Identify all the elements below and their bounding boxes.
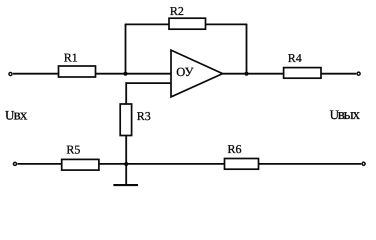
input terminal (upper left, Uвх) [9, 72, 12, 75]
svg-text:R6: R6 [227, 142, 241, 156]
resistor R5 [62, 142, 99, 170]
svg-text:R5: R5 [66, 142, 80, 156]
wire: R6 to lower output terminal [259, 163, 362, 165]
ground [113, 164, 138, 185]
node C junction dot [124, 162, 128, 166]
wire: input terminal to R1 [13, 73, 59, 75]
svg-text:Uвых: Uвых [330, 107, 361, 123]
svg-text:R4: R4 [288, 51, 302, 65]
wire: vertical from lower input corner down to R3 [125, 82, 127, 104]
resistor R6 [225, 142, 259, 169]
op-amp U1 (ОУ) [171, 50, 223, 97]
output terminal (upper right, Uвых) [357, 72, 360, 75]
svg-text:R2: R2 [170, 4, 184, 18]
wire: feedback right vertical down to output node B [246, 24, 248, 74]
resistor R1 [59, 51, 96, 77]
resistor R3 [120, 104, 151, 136]
wire: R4 to output terminal [321, 73, 356, 75]
resistor R2 [169, 4, 206, 29]
svg-text:ОУ: ОУ [176, 65, 193, 79]
wire: top feedback horizontal left to R2 [125, 23, 169, 25]
wire: R1 to op-amp noninverting input (through node A) [96, 73, 172, 75]
input terminal (lower left) [13, 162, 16, 165]
node A junction dot [123, 72, 127, 76]
output terminal (lower right) [362, 162, 365, 165]
resistor R4 [284, 51, 321, 78]
wire: op-amp output to R4 (through node B) [223, 73, 284, 75]
svg-text:Uвх: Uвх [5, 108, 28, 124]
wire: R3 bottom down to node C [125, 136, 127, 165]
node B junction dot [244, 72, 248, 76]
wire: feedback left vertical (node A up to R2 branch) [125, 24, 127, 74]
wire: lower input terminal to R5 [18, 163, 62, 165]
svg-text:R1: R1 [64, 51, 78, 65]
wire: op-amp lower input horizontal [126, 82, 171, 84]
wire: R5 to R6 (through node C) [99, 163, 225, 165]
svg-text:R3: R3 [137, 109, 151, 123]
wire: top feedback horizontal R2 to right vertical [206, 23, 248, 25]
